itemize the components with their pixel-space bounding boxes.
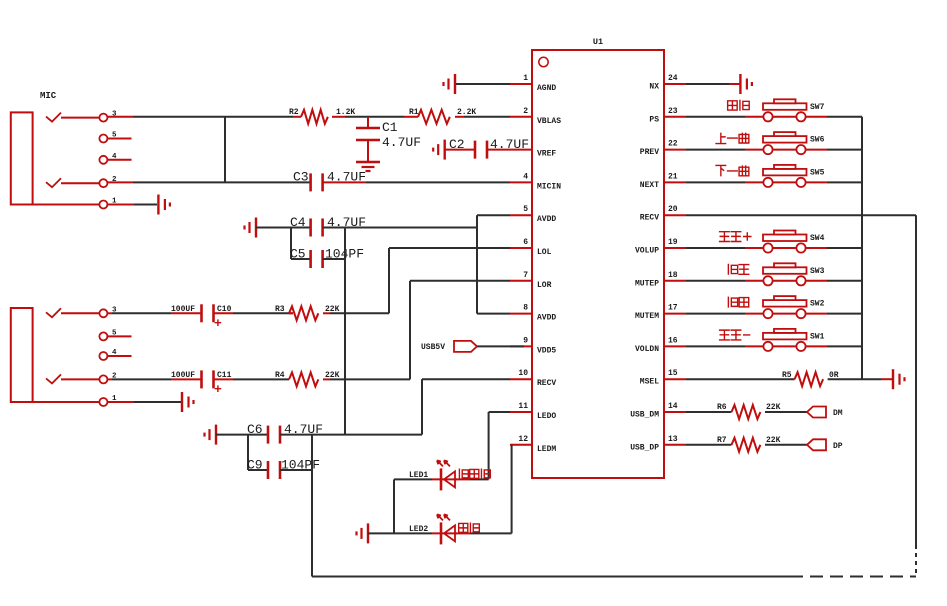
svg-text:C2: C2 — [449, 137, 465, 152]
svg-text:VOLUP: VOLUP — [635, 247, 659, 256]
svg-text:+: + — [214, 316, 222, 331]
svg-text:RECV: RECV — [537, 379, 556, 388]
svg-text:PS: PS — [649, 115, 659, 124]
svg-text:1.2K: 1.2K — [336, 108, 355, 117]
svg-text:R1: R1 — [409, 108, 419, 117]
svg-text:4: 4 — [523, 172, 528, 181]
svg-text:R2: R2 — [289, 108, 299, 117]
svg-text:SW1: SW1 — [810, 332, 825, 341]
svg-text:C9: C9 — [247, 458, 263, 473]
svg-text:LEDO: LEDO — [537, 412, 556, 421]
svg-text:DM: DM — [833, 409, 843, 418]
svg-text:C6: C6 — [247, 422, 263, 437]
svg-text:8: 8 — [523, 304, 528, 313]
svg-text:LED1: LED1 — [409, 471, 428, 480]
svg-text:17: 17 — [668, 304, 678, 313]
svg-text:+: + — [214, 382, 222, 397]
svg-text:MSEL: MSEL — [640, 378, 659, 387]
svg-text:PREV: PREV — [640, 148, 659, 157]
svg-text:C1: C1 — [382, 120, 398, 135]
svg-text:VOLDN: VOLDN — [635, 345, 659, 354]
svg-text:SW4: SW4 — [810, 234, 825, 243]
svg-text:LED2: LED2 — [409, 525, 428, 534]
svg-text:R4: R4 — [275, 371, 285, 380]
svg-text:16: 16 — [668, 336, 678, 345]
svg-text:9: 9 — [523, 336, 528, 345]
svg-text:NEXT: NEXT — [640, 181, 659, 190]
svg-text:MUTEM: MUTEM — [635, 312, 659, 321]
svg-text:AVDD: AVDD — [537, 314, 556, 323]
svg-text:U1: U1 — [593, 37, 603, 47]
svg-text:LEDM: LEDM — [537, 445, 556, 454]
svg-text:SW5: SW5 — [810, 168, 825, 177]
svg-text:C4: C4 — [290, 215, 306, 230]
svg-text:14: 14 — [668, 402, 678, 411]
svg-text:12: 12 — [518, 435, 528, 444]
svg-text:22: 22 — [668, 140, 678, 149]
svg-text:6: 6 — [523, 238, 528, 247]
svg-text:R5: R5 — [782, 371, 792, 380]
svg-text:USB_DM: USB_DM — [630, 411, 659, 420]
svg-text:4.7UF: 4.7UF — [382, 135, 421, 150]
svg-text:4.7UF: 4.7UF — [490, 137, 529, 152]
svg-text:VDD5: VDD5 — [537, 346, 556, 355]
svg-text:SW6: SW6 — [810, 136, 825, 145]
svg-text:R3: R3 — [275, 305, 285, 314]
svg-text:SW2: SW2 — [810, 300, 825, 309]
svg-text:MICIN: MICIN — [537, 182, 561, 191]
svg-text:5: 5 — [523, 205, 528, 214]
svg-text:AVDD: AVDD — [537, 215, 556, 224]
svg-text:AGND: AGND — [537, 84, 556, 93]
svg-text:RECV: RECV — [640, 214, 659, 223]
svg-text:11: 11 — [518, 402, 528, 411]
svg-text:7: 7 — [523, 271, 528, 280]
svg-text:2.2K: 2.2K — [457, 108, 476, 117]
svg-text:C3: C3 — [293, 170, 309, 185]
svg-text:22K: 22K — [766, 403, 781, 412]
svg-text:24: 24 — [668, 74, 678, 83]
svg-text:SW3: SW3 — [810, 267, 825, 276]
svg-text:19: 19 — [668, 238, 678, 247]
svg-text:VREF: VREF — [537, 150, 556, 159]
svg-text:SW7: SW7 — [810, 103, 825, 112]
svg-text:21: 21 — [668, 172, 678, 181]
svg-text:NX: NX — [649, 83, 659, 92]
svg-text:R7: R7 — [717, 436, 727, 445]
svg-text:1: 1 — [523, 74, 528, 83]
svg-text:2: 2 — [523, 107, 528, 116]
svg-text:C5: C5 — [290, 247, 306, 262]
svg-text:DP: DP — [833, 442, 843, 451]
svg-text:USB_DP: USB_DP — [630, 443, 659, 452]
svg-text:VBLAS: VBLAS — [537, 117, 561, 126]
svg-text:13: 13 — [668, 435, 678, 444]
svg-text:LOL: LOL — [537, 248, 552, 257]
svg-text:23: 23 — [668, 107, 678, 116]
svg-text:MIC: MIC — [40, 91, 57, 101]
svg-text:MUTEP: MUTEP — [635, 279, 659, 288]
svg-text:USB5V: USB5V — [421, 343, 445, 352]
svg-text:10: 10 — [518, 369, 528, 378]
svg-text:15: 15 — [668, 369, 678, 378]
svg-text:22K: 22K — [766, 436, 781, 445]
svg-text:20: 20 — [668, 205, 678, 214]
svg-text:18: 18 — [668, 271, 678, 280]
svg-text:LOR: LOR — [537, 281, 552, 290]
svg-text:R6: R6 — [717, 403, 727, 412]
